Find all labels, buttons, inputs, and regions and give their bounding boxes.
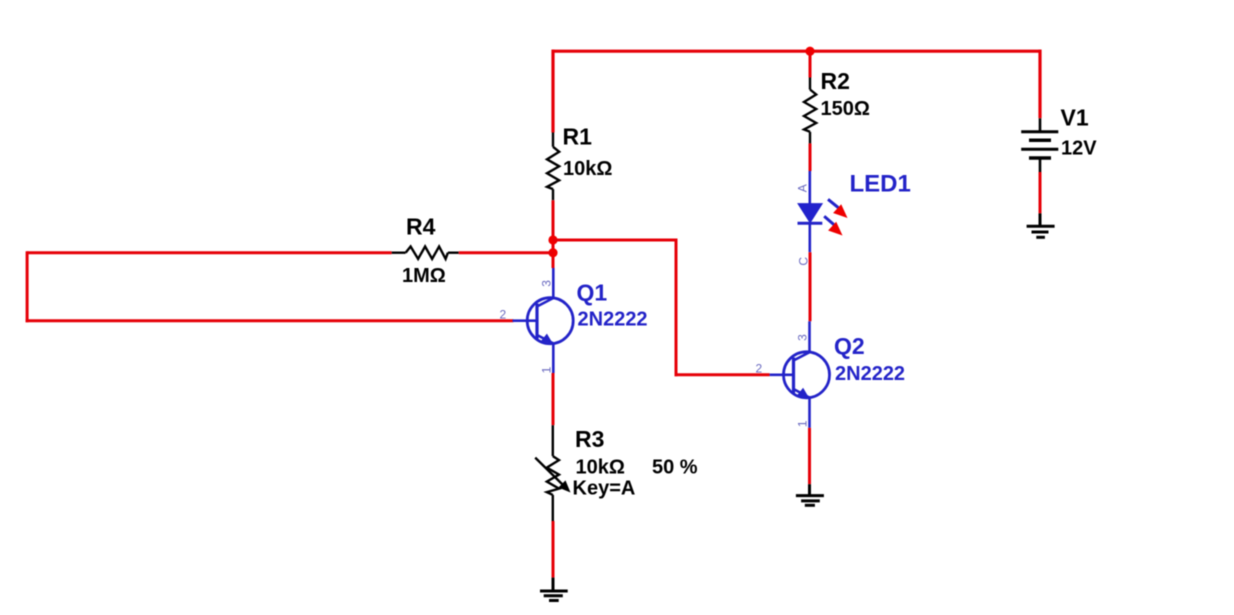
LED1 emission arrow 2 head — [828, 222, 842, 236]
pin label 3 of Q1 — [539, 280, 553, 287]
wire Q2 emitter to ground — [808, 428, 811, 484]
svg-text:12V: 12V — [1061, 138, 1097, 160]
svg-text:2N2222: 2N2222 — [578, 308, 648, 330]
pin label 2 of Q2 — [756, 362, 763, 376]
svg-text:A: A — [796, 184, 810, 192]
svg-text:LED1: LED1 — [850, 170, 911, 197]
wire R1 top vertical — [551, 50, 554, 133]
value 50 % of R3 — [652, 456, 698, 478]
svg-text:R4: R4 — [406, 214, 436, 240]
wire R2 to LED1 — [809, 143, 812, 171]
pin label 2 of Q1 — [500, 308, 507, 322]
wire R1 bottom to Q1 collector — [552, 200, 555, 268]
label V1 — [1061, 104, 1089, 130]
LED1 triangle — [798, 204, 822, 223]
svg-text:1MΩ: 1MΩ — [402, 265, 446, 287]
wire branch horizontal to Q2 base column — [553, 239, 678, 242]
resistor R4 — [392, 247, 459, 259]
pin label C of LED1 — [796, 257, 810, 266]
wire branch vertical down — [675, 239, 678, 377]
LED D1 anode lead — [808, 171, 811, 204]
LED1 emission arrow 1 shaft — [828, 199, 839, 208]
svg-text:10kΩ: 10kΩ — [563, 158, 612, 180]
pin label 1 of Q2 — [796, 420, 810, 427]
potentiometer R3 wiper arrow head — [558, 480, 570, 492]
LED1 cathode bar — [798, 222, 823, 225]
transistor Q1 emitter arrow head — [541, 334, 553, 343]
svg-text:Key=A: Key=A — [573, 478, 636, 500]
ground under V1 — [1027, 213, 1055, 237]
value Key=A of R3 — [573, 478, 636, 500]
wire V1 top vertical — [1038, 50, 1041, 119]
node junction dot top rail / R2 — [805, 47, 814, 56]
label R4 — [406, 214, 436, 240]
wire top rail horizontal — [552, 50, 1042, 53]
label Q1 — [577, 280, 608, 306]
wire Q1 emitter to R3 — [552, 373, 555, 425]
wire bottom horizontal to Q1 base — [26, 319, 514, 322]
ground under Q2 — [796, 484, 824, 505]
svg-text:150Ω: 150Ω — [821, 98, 870, 120]
LED1 cathode lead — [808, 223, 811, 252]
value 10kohm of R3 — [576, 456, 625, 478]
svg-text:3: 3 — [796, 334, 810, 341]
pin label A of LED1 — [796, 184, 810, 192]
value 10kohm — [563, 158, 612, 180]
node junction dot R4 — [548, 248, 557, 257]
resistor R2 — [804, 78, 816, 144]
svg-text:Q2: Q2 — [834, 333, 865, 359]
value 12V — [1061, 138, 1097, 160]
node junction dot base branch — [548, 235, 557, 244]
svg-text:V1: V1 — [1061, 104, 1089, 130]
svg-text:R2: R2 — [821, 68, 850, 94]
svg-text:10kΩ: 10kΩ — [576, 456, 625, 478]
LED1 emission arrow 1 head — [833, 204, 847, 218]
value 2N2222 of Q1 — [578, 308, 648, 330]
svg-text:C: C — [796, 257, 810, 266]
wire LED1 to Q2 collector — [809, 252, 812, 321]
wire R4 top horizontal — [27, 251, 392, 254]
pin label 3 of Q2 — [796, 334, 810, 341]
wire R3 to ground — [552, 521, 555, 578]
wire Q2 base horizontal — [675, 373, 770, 376]
label R3 — [575, 426, 604, 452]
svg-text:1: 1 — [539, 366, 553, 373]
transistor Q2 emitter arrow head — [797, 388, 809, 397]
pin label 1 of Q1 — [539, 366, 553, 373]
wire R2 top vertical — [809, 51, 812, 77]
wire R4 to junction — [459, 251, 553, 254]
svg-text:50 %: 50 % — [652, 456, 698, 478]
value 2N2222 of Q2 — [835, 363, 905, 385]
value 1Mohm — [402, 265, 446, 287]
svg-text:2: 2 — [756, 362, 763, 376]
svg-text:R1: R1 — [563, 123, 593, 149]
LED1 emission arrow 2 shaft — [824, 216, 834, 225]
label LED1 — [850, 170, 911, 197]
svg-text:Q1: Q1 — [577, 280, 608, 306]
resistor R1 — [547, 133, 559, 201]
svg-text:R3: R3 — [575, 426, 604, 452]
transistor Q1 — [513, 268, 574, 373]
battery V1 — [1021, 118, 1058, 172]
label Q2 — [834, 333, 865, 359]
value 150ohm — [821, 98, 870, 120]
label R1 — [563, 123, 593, 149]
label R2 — [821, 68, 850, 94]
svg-text:2N2222: 2N2222 — [835, 363, 905, 385]
ground under R3 — [540, 578, 568, 601]
svg-text:2: 2 — [500, 308, 507, 322]
wire V1 to ground — [1039, 172, 1042, 213]
transistor Q2 — [770, 321, 830, 428]
wire left vertical — [26, 251, 29, 322]
potentiometer R3 — [535, 425, 564, 521]
svg-text:3: 3 — [539, 280, 553, 287]
svg-text:1: 1 — [796, 420, 810, 427]
